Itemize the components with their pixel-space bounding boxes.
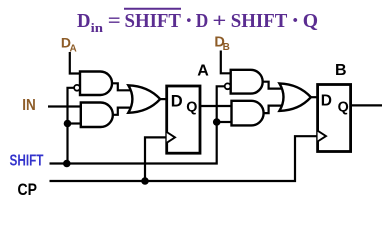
- wire QB output: [351, 104, 382, 106]
- svg-text:B: B: [335, 62, 347, 79]
- junction dot CP to clock A: [141, 177, 149, 185]
- junction dot AND4 lower input: [213, 118, 221, 126]
- wire OR2 output to D of B: [311, 96, 318, 98]
- wire QA to stage2 AND4 input: [200, 105, 232, 107]
- wire AND4 lower input: [217, 121, 232, 123]
- overline over SHIFT: [124, 8, 181, 10]
- svg-text:D: D: [321, 92, 332, 109]
- AND gate A2 (Din bottom): [81, 103, 113, 128]
- wire clock feed A from CP: [145, 137, 167, 181]
- AND gate A4 (stage2 bottom): [232, 101, 264, 126]
- svg-text:Din=SHIFT·D+SHIFT·Q: Din=SHIFT·D+SHIFT·Q: [77, 8, 318, 35]
- input bubble of A1: [74, 85, 80, 91]
- wire AND2 lower input: [68, 122, 81, 124]
- svg-text:DA: DA: [61, 35, 77, 55]
- wire SHIFT bus to stage2 riser and bubble feed: [50, 86, 225, 163]
- title equation Din = /SHIFT . D + SHIFT . Q: [77, 8, 318, 35]
- svg-text:DB: DB: [214, 35, 229, 54]
- svg-text:Q: Q: [338, 99, 349, 115]
- svg-text:SHIFT: SHIFT: [10, 153, 44, 170]
- svg-text:Q: Q: [186, 100, 197, 116]
- flip-flop A body: [167, 86, 200, 153]
- wire SHIFT riser stage1 with bubble feed: [68, 88, 75, 165]
- svg-text:IN: IN: [22, 97, 36, 114]
- OR gate O1: [128, 85, 160, 113]
- wire IN lead: [48, 105, 80, 107]
- wire D_A lead: [70, 52, 79, 74]
- wire OR1 output to D of A: [160, 98, 167, 100]
- OR gate O2: [279, 83, 311, 111]
- junction dot SHIFT line stage1: [63, 160, 71, 168]
- AND gate A3 (stage2 top, inverted SHIFT input): [231, 70, 263, 94]
- clock triangle of flip-flop B: [318, 131, 326, 142]
- flip-flop B body: [318, 85, 351, 152]
- input bubble of A3: [225, 83, 231, 89]
- AND gate A1 (Din top, inverted SHIFT input): [80, 72, 112, 96]
- wire AND1 output jog: [112, 83, 131, 90]
- wire AND4 output jog: [264, 106, 283, 114]
- wire AND2 output jog: [113, 108, 131, 115]
- svg-text:D: D: [171, 92, 183, 110]
- clock triangle of flip-flop A: [167, 132, 175, 143]
- svg-text:CP: CP: [18, 181, 38, 199]
- wire D_B lead: [221, 51, 230, 74]
- wire CP bus to clock B: [50, 136, 318, 181]
- junction dot AND2 lower input: [64, 120, 72, 128]
- wire AND3 output jog: [263, 82, 282, 89]
- svg-text:A: A: [197, 62, 209, 79]
